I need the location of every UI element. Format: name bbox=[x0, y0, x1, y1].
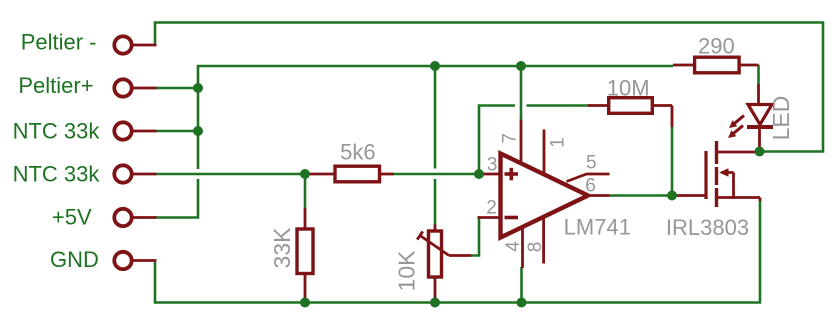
wire net Peltier- top rail bbox=[155, 23, 823, 152]
svg-text:GND: GND bbox=[50, 247, 99, 272]
pin 3 stub bbox=[479, 173, 501, 176]
wire pin4 to ground rail bbox=[520, 267, 523, 303]
wire +5V rail bbox=[156, 66, 673, 218]
junction pin4 ground bbox=[517, 298, 527, 308]
wire 10M right riser to output bbox=[671, 126, 674, 196]
junction output gate bbox=[667, 191, 677, 201]
pin 4 stub bbox=[521, 226, 524, 268]
resistor 10M bbox=[588, 98, 672, 127]
pin 6 stub bbox=[588, 194, 610, 197]
resistor 290 bbox=[673, 57, 759, 73]
wire NTC lower to node A bbox=[156, 173, 305, 176]
junction pot top rail bbox=[430, 61, 440, 71]
resistor 33K bbox=[297, 208, 313, 301]
svg-text:8: 8 bbox=[525, 242, 546, 253]
svg-text:33K: 33K bbox=[269, 227, 295, 269]
connector pad +5V bbox=[114, 209, 156, 226]
svg-text:10M: 10M bbox=[607, 75, 650, 100]
connector pad Peltier- bbox=[114, 36, 156, 53]
wire output net bbox=[610, 194, 674, 197]
wire V+ riser pin7 bbox=[520, 66, 523, 120]
junction pin3 feedback bbox=[474, 169, 484, 179]
svg-text:Peltier+: Peltier+ bbox=[18, 73, 93, 98]
op-amp U1 LM741 body bbox=[501, 154, 589, 238]
svg-text:2: 2 bbox=[486, 198, 497, 219]
junction node A divider bbox=[300, 169, 310, 179]
resistor 5k6 bbox=[306, 166, 394, 182]
svg-text:+5V: +5V bbox=[52, 204, 92, 229]
junction pin7 rail bbox=[516, 61, 526, 71]
connector pad GND bbox=[114, 252, 156, 269]
pin 7 stub bbox=[520, 120, 523, 166]
wire node A to R2 top bbox=[304, 176, 307, 208]
pin 1 stub bbox=[543, 130, 546, 174]
svg-text:290: 290 bbox=[698, 34, 735, 59]
connector pad Peltier+ bbox=[114, 79, 156, 96]
svg-text:1: 1 bbox=[547, 137, 568, 148]
svg-text:6: 6 bbox=[585, 176, 596, 197]
trimmer 10K bbox=[417, 225, 471, 302]
svg-text:3: 3 bbox=[487, 155, 498, 176]
svg-text:4: 4 bbox=[503, 241, 524, 252]
junction NTC upper bbox=[193, 126, 203, 136]
svg-text:LED: LED bbox=[768, 96, 794, 141]
mosfet body arrow bbox=[719, 168, 729, 177]
LED emission arrow upper bbox=[729, 116, 744, 129]
svg-text:NTC 33k: NTC 33k bbox=[13, 162, 101, 187]
connector pad NTC upper bbox=[114, 122, 156, 139]
junction 33K ground bbox=[300, 298, 310, 308]
wire Peltier+ bbox=[156, 87, 198, 90]
svg-text:Peltier -: Peltier - bbox=[21, 29, 97, 54]
pin 5 stub bbox=[567, 174, 610, 182]
wire pot top riser bbox=[434, 66, 437, 226]
connector pad NTC lower bbox=[114, 165, 156, 182]
junction Peltier+ bbox=[193, 83, 203, 93]
junction LED drain bbox=[755, 147, 765, 157]
LED emission arrow lower bbox=[728, 126, 743, 139]
wire NTC upper bbox=[156, 130, 198, 133]
svg-text:NTC 33k: NTC 33k bbox=[13, 119, 101, 144]
svg-text:IRL3803: IRL3803 bbox=[666, 215, 749, 240]
wire feedback riser to 10M bbox=[479, 106, 589, 173]
LED D1 bbox=[747, 84, 773, 152]
pin 8 stub bbox=[542, 216, 545, 264]
svg-text:10K: 10K bbox=[394, 250, 420, 292]
wire GND bottom rail bbox=[155, 200, 760, 303]
pin 2 stub bbox=[478, 216, 501, 219]
svg-text:5k6: 5k6 bbox=[340, 140, 375, 165]
junction pot ground bbox=[430, 298, 440, 308]
svg-text:5: 5 bbox=[586, 153, 597, 174]
wire 5k6 to pin3 bbox=[394, 173, 480, 176]
mosfet Q1 IRL3803 bbox=[673, 141, 760, 207]
svg-text:LM741: LM741 bbox=[564, 215, 631, 240]
wire pot wiper to pin2 bbox=[470, 218, 480, 256]
wire 290 to LED anode bbox=[757, 65, 760, 85]
svg-text:7: 7 bbox=[499, 133, 520, 144]
